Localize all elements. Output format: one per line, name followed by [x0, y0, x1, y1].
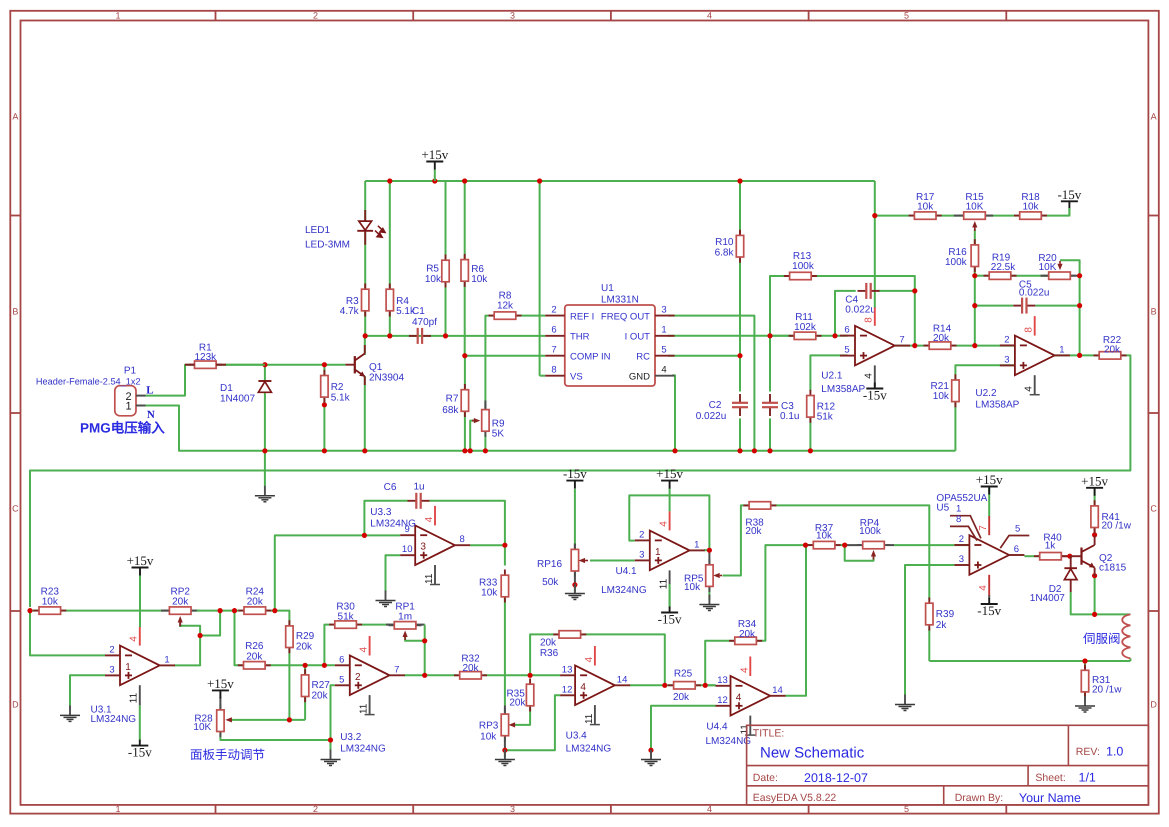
title block [747, 725, 1149, 805]
junction (324.4,364.7) [322, 362, 327, 367]
svg-text:L: L [146, 384, 153, 396]
resistor R23 [33, 610, 66, 612]
ground under RP5 [708, 595, 710, 605]
wire x=30 to U3.1 pin2 [30, 611, 105, 656]
svg-text:2018-12-07: 2018-12-07 [804, 771, 868, 785]
resistor R17 [909, 215, 942, 217]
svg-text:Q1: Q1 [369, 362, 383, 373]
junction (740,181) [737, 178, 742, 183]
svg-text:伺服阀: 伺服阀 [1083, 632, 1121, 646]
svg-text:LED1: LED1 [305, 225, 330, 236]
svg-text:LM331N: LM331N [601, 295, 639, 306]
svg-text:10k: 10k [481, 587, 498, 598]
power flag +15v R28 [212, 689, 229, 691]
resistor R5 [445, 255, 447, 288]
resistor R16 [974, 239, 976, 272]
pot lead gray R15 right [985, 215, 994, 217]
ground under U3.2 pin5 net [330, 750, 332, 760]
connector P1 [115, 386, 136, 416]
potentiometer R20 [1043, 275, 1076, 277]
svg-text:LM324NG: LM324NG [706, 736, 752, 747]
svg-text:1N4007: 1N4007 [1030, 593, 1065, 604]
wire U4.1 pin2 feedback loop [629, 495, 709, 550]
svg-text:102k: 102k [794, 322, 817, 333]
svg-text:U3.2: U3.2 [340, 732, 362, 743]
op-amp U3.2 [350, 656, 390, 696]
svg-text:U4.1: U4.1 [616, 566, 638, 577]
resistor R6 [464, 254, 466, 287]
svg-text:4: 4 [424, 516, 435, 522]
wire R9 wiper to gnd rail [470, 421, 475, 451]
svg-text:5: 5 [844, 345, 849, 356]
svg-text:COMP IN: COMP IN [570, 351, 611, 362]
U3.2 power pin 4 stub [369, 636, 371, 656]
svg-text:2: 2 [959, 534, 964, 545]
wire R31 top [1084, 661, 1086, 670]
svg-text:4: 4 [658, 521, 669, 527]
wire +15v top rail y=181 [365, 180, 875, 182]
potentiometer R15 [958, 215, 991, 217]
svg-text:2: 2 [551, 305, 556, 316]
wire U3.3 pin10 to gnd [386, 555, 401, 592]
junction (1094.6,534.9) [1092, 532, 1097, 537]
svg-text:3: 3 [420, 542, 426, 553]
wire RC line [668, 355, 740, 357]
svg-text:7: 7 [899, 335, 904, 346]
wire Q1 emitter to rail [364, 376, 366, 451]
resistor R26 [238, 664, 271, 666]
wire RP16 bottom to gnd [574, 570, 576, 585]
svg-text:-15v: -15v [863, 388, 887, 403]
svg-text:1k: 1k [1045, 541, 1057, 552]
resistor R2 [323, 370, 325, 403]
svg-text:10k: 10k [480, 732, 497, 743]
svg-text:5: 5 [904, 11, 909, 21]
junction (324.4,665.3) [322, 663, 327, 668]
wire RP2 right to R24 [191, 610, 244, 612]
junction (740,355.7) [737, 353, 742, 358]
wire D1 bottom [264, 393, 266, 451]
wire R34 right up to R37 line [757, 545, 806, 641]
svg-text:A: A [1151, 112, 1157, 122]
op-amp U3.1 [120, 646, 160, 686]
svg-text:3: 3 [959, 554, 964, 565]
svg-text:GND: GND [629, 371, 650, 382]
svg-text:10k: 10k [425, 274, 442, 285]
wire R7 bottom to gnd rail [464, 411, 466, 451]
svg-text:U1: U1 [601, 283, 614, 294]
power flag -15v right of R18 [1061, 200, 1078, 202]
wire U4.1 output to node [704, 549, 709, 551]
svg-text:U3.4: U3.4 [566, 731, 588, 742]
resistor R11 [789, 335, 822, 337]
U4.4 power pin 4 stub [749, 657, 751, 677]
wire RP1 right terminal down [424, 625, 426, 676]
junction (770,335.8) [767, 333, 772, 338]
svg-text:c1815: c1815 [1099, 563, 1127, 574]
wire R32 to pin13 node [483, 674, 530, 676]
U2.2 power pin 4 stub [1034, 375, 1036, 395]
wire output node down thru R33 [504, 545, 506, 565]
svg-text:123k: 123k [194, 352, 217, 363]
svg-text:2k: 2k [936, 620, 948, 631]
svg-text:-15v: -15v [128, 745, 152, 760]
wire R26 right to pin6 line [265, 664, 335, 666]
wire R1 line to Q1 base [216, 364, 345, 366]
resistor R40 [1034, 555, 1067, 557]
svg-text:3: 3 [510, 804, 515, 814]
svg-text:14: 14 [772, 685, 783, 696]
svg-text:20k: 20k [312, 690, 329, 701]
wire U2.2 output to R22 [1055, 354, 1100, 356]
resistor R38 [743, 504, 776, 506]
wire pin5 node down to gnd [330, 740, 332, 750]
svg-text:4: 4 [864, 373, 875, 379]
svg-text:3: 3 [1004, 354, 1009, 365]
wire RP4 wiper loop [845, 545, 874, 561]
resistor R22 [1094, 354, 1127, 356]
op-amp U3.3 [415, 525, 455, 565]
wire REF I pin2 stub [540, 315, 546, 317]
svg-text:2: 2 [313, 804, 318, 814]
wire R11 right to pin6 node [815, 335, 847, 337]
junction (424.7,640.8) [422, 638, 427, 643]
wire I OUT line [668, 335, 795, 337]
wire R2 bottom [323, 397, 325, 451]
junction (1069.8,556.2) [1067, 554, 1072, 559]
svg-text:3: 3 [639, 549, 644, 560]
svg-text:20k: 20k [933, 333, 950, 344]
wire C5 line [975, 305, 1014, 307]
op-amp U5 OPA552UA [969, 535, 1009, 575]
svg-text:5: 5 [1015, 524, 1020, 535]
svg-text:4: 4 [359, 647, 370, 653]
junction (530.1,675.3) [528, 673, 533, 678]
pot gray lead RP2 wiper shaft [179, 622, 181, 627]
svg-text:LED-3MM: LED-3MM [305, 240, 350, 251]
wire RP5 wiper to R38 [723, 505, 750, 575]
U5 power pin4 lead [988, 575, 990, 596]
junction (274.8,610.6) [272, 608, 277, 613]
U2.2 power pin 8 stub [1034, 316, 1036, 336]
wire RP1 wiper link [405, 633, 425, 641]
svg-text:6: 6 [339, 654, 344, 665]
ground under RP3 [504, 750, 506, 760]
wire R6 top [464, 181, 466, 259]
svg-text:10k: 10k [42, 597, 59, 608]
wire R10 branch x=740 [739, 181, 741, 235]
potentiometer R28 [219, 704, 221, 737]
wire R29 bottom to wiper line [288, 648, 290, 720]
svg-text:100k: 100k [945, 257, 968, 268]
resistor R32 [454, 674, 487, 676]
resistor R12 [809, 390, 811, 423]
resistor R19 [984, 275, 1017, 277]
wire R9 top to R8 left [485, 316, 494, 411]
svg-text:VS: VS [570, 371, 583, 382]
wire R20 node down thru C5 node to U2.2 out [1079, 276, 1081, 356]
junction (914.8,290.9) [912, 288, 917, 293]
junction (835,335.8) [832, 333, 837, 338]
svg-text:0.1u: 0.1u [780, 411, 799, 422]
svg-text:Drawn By:: Drawn By: [955, 792, 1003, 804]
wire U4.1 output node down RP5 [708, 550, 710, 566]
pot gray leads RP1 [386, 624, 395, 626]
svg-text:REV:: REV: [1076, 746, 1100, 758]
svg-text:面板手动调节: 面板手动调节 [190, 748, 265, 762]
svg-text:10k: 10k [471, 274, 488, 285]
wire U4.1 +15v to pin4 [669, 488, 671, 511]
junction (504.9,750.2) [502, 748, 507, 753]
svg-text:5: 5 [661, 345, 666, 356]
ground under U3.3 pin10 [385, 591, 387, 601]
U3.3 power pin 11 stub [434, 565, 436, 585]
svg-text:4: 4 [739, 667, 750, 673]
wire P1 N down to gnd rail [146, 406, 265, 451]
U3.3 power pin 4 stub [434, 506, 436, 526]
U2.1 power pin 8 stub to rail [874, 308, 876, 326]
svg-text:10k: 10k [816, 531, 833, 542]
svg-text:B: B [1151, 307, 1157, 317]
capacitor C3 [769, 394, 771, 403]
svg-text:10K: 10K [193, 722, 211, 733]
junction (389.8,181) [387, 178, 392, 183]
wire THR line (C1 net) [365, 335, 445, 337]
capacitor C6 [408, 500, 417, 502]
svg-text:REF I: REF I [570, 311, 594, 322]
resistor R31 [1084, 665, 1086, 698]
svg-text:1N4007: 1N4007 [220, 394, 255, 405]
potentiometer RP1 [389, 624, 422, 626]
svg-text:RC: RC [636, 351, 650, 362]
wire R6 bottom to COMP node [464, 282, 466, 356]
lead R1 [185, 364, 195, 366]
svg-text:1/1: 1/1 [1079, 771, 1096, 785]
svg-text:R36: R36 [540, 648, 559, 659]
pot gray lead RP16 top [574, 544, 576, 550]
junction (445.5,335.9) [443, 333, 448, 338]
svg-text:Sheet:: Sheet: [1035, 772, 1065, 784]
junction (264.9,450.8) [262, 448, 267, 453]
svg-text:11: 11 [658, 578, 669, 589]
wire U5 output to R40 [1024, 555, 1039, 557]
wire wiper node to main line link [200, 611, 220, 636]
wire U2.2 pin3 to R21 [955, 365, 1015, 380]
svg-text:4: 4 [661, 365, 666, 376]
svg-text:1u: 1u [413, 482, 424, 493]
svg-text:4: 4 [707, 11, 712, 21]
junction (200.1,635.5) [198, 633, 203, 638]
svg-text:2: 2 [1004, 334, 1009, 345]
svg-text:4: 4 [580, 682, 586, 693]
svg-text:20k: 20k [745, 526, 762, 537]
resistor R18 [1014, 215, 1047, 217]
svg-text:4.7k: 4.7k [340, 306, 360, 317]
potentiometer RP3 [504, 708, 506, 741]
wire pin13 node to U3.4 pin13 [530, 674, 560, 676]
power flag +15v U4.1 [661, 480, 678, 482]
svg-text:8: 8 [956, 514, 961, 525]
wire LED branch top [364, 181, 366, 221]
svg-text:R25: R25 [674, 669, 693, 680]
U5 pin1 pin8 stubs [950, 516, 981, 539]
junction (810.4,450.8) [808, 448, 813, 453]
wire R39 bottom to sense line [928, 629, 930, 662]
junction (974.8,305.6) [972, 303, 977, 308]
wire U1 GND pin down [672, 375, 675, 450]
junction (389.8,335.9) [387, 333, 392, 338]
wire U3.1 pin11 to -15v [139, 705, 141, 740]
svg-text:5: 5 [339, 674, 344, 685]
junction (805.5,545.1) [803, 543, 808, 548]
wire U3.3 pin9 line from x=274.8 [275, 535, 400, 610]
transistor Q2 [1080, 548, 1082, 565]
svg-text:20k: 20k [509, 698, 526, 709]
U3.1 power pin 11 lead [139, 685, 141, 705]
U3.1 power pin 4 lead [139, 627, 141, 646]
ground under U3.1 pin3 [69, 705, 71, 715]
wire U3.2 output to dot [404, 674, 425, 676]
power flag -15v U4.1 [661, 612, 678, 614]
svg-text:20k: 20k [1104, 345, 1121, 356]
svg-text:-15v: -15v [563, 466, 587, 481]
junction (424.7,675.3) [422, 673, 427, 678]
svg-text:6: 6 [551, 325, 556, 336]
wire rail to U2.1 power / R17 branch x=874.8 [874, 181, 876, 308]
wire R23 left lead [30, 610, 39, 612]
svg-text:20k: 20k [247, 597, 264, 608]
resistor R21 [954, 374, 956, 407]
svg-text:20k: 20k [172, 597, 189, 608]
wire R38 right to R39 column [771, 505, 930, 599]
svg-text:470pf: 470pf [412, 317, 437, 328]
resistor R30 [329, 624, 362, 626]
wire R17-R15 [936, 215, 964, 217]
wire U5 pin2 line [954, 544, 969, 546]
junction (709.4,550.2) [707, 548, 712, 553]
svg-text:1: 1 [694, 539, 699, 550]
svg-text:5.1k: 5.1k [331, 393, 351, 404]
svg-text:+15v: +15v [1081, 473, 1108, 488]
resistor R36 (value above name) [553, 633, 586, 635]
resistor R3 [364, 284, 366, 317]
svg-text:2: 2 [355, 672, 361, 683]
wire U5 pin3 to gnd [905, 565, 954, 695]
svg-text:20 /1w: 20 /1w [1102, 521, 1132, 532]
wire C6 left branch [364, 501, 407, 536]
svg-text:1: 1 [115, 11, 120, 21]
junction (464.7,181) [462, 178, 467, 183]
wire R12 bottom [809, 417, 811, 451]
resistor R29 [288, 620, 290, 653]
wire Q1 collector [364, 336, 366, 355]
junction (664.8,685.3) [662, 683, 667, 688]
svg-text:2: 2 [313, 11, 318, 21]
svg-text:3: 3 [661, 305, 666, 316]
wire U4.4 pin12 to gnd [651, 706, 716, 750]
wire coil bottom corner [1129, 658, 1131, 661]
svg-text:14: 14 [617, 674, 628, 685]
wire R15 wiper down to R16 [974, 229, 976, 245]
svg-text:Your Name: Your Name [1019, 791, 1081, 805]
wire R5 bottom to C1 node [445, 282, 447, 336]
wire R19 line [975, 275, 989, 277]
junction (485.4,450.8) [483, 448, 488, 453]
wire R22 right down long rail [30, 355, 1130, 607]
op-amp U3.4 [575, 666, 615, 706]
wire RC node to C2 [739, 356, 741, 392]
wire U3.3 output [470, 544, 505, 546]
wire P1 L to R1 [146, 365, 195, 396]
junction (234.5,610.6) [232, 608, 237, 613]
svg-text:11: 11 [584, 713, 595, 724]
wire gnd rail y=450.8 [265, 450, 956, 452]
junction (1094.6,614.4) [1092, 612, 1097, 617]
resistor R33 [504, 570, 506, 603]
junction (289.4,719.9) [287, 717, 292, 722]
wire C2 bottom [739, 418, 741, 450]
wire RP4 right to U5 pin2 [894, 544, 954, 546]
svg-text:2N3904: 2N3904 [369, 373, 404, 384]
svg-text:50k: 50k [542, 577, 559, 588]
svg-text:-15v: -15v [1057, 187, 1081, 202]
ground under RP16 [574, 584, 576, 594]
wire R14 right to U2.2 pin2 [951, 345, 1015, 347]
wire R28 bottom to pin5 path [220, 730, 330, 740]
wire R19 node down to C5 line [974, 276, 976, 306]
P1 pin leads [136, 395, 146, 397]
svg-text:12k: 12k [497, 301, 514, 312]
svg-text:LM324NG: LM324NG [566, 744, 612, 755]
svg-text:4: 4 [129, 636, 140, 642]
junction (305.1,665.3) [303, 663, 308, 668]
wire R3 bottom to THR node [364, 311, 366, 336]
wire U3.1 pin3 to gnd [70, 675, 105, 705]
svg-text:U2.1: U2.1 [821, 371, 843, 382]
resistor R41 [1094, 500, 1096, 533]
wire R15-R18 [985, 215, 1020, 217]
resistor R35 [529, 679, 531, 712]
wire RP3 bottom to gnd dot [504, 735, 506, 750]
junction (651,750.2) [648, 748, 653, 753]
pot gray lead R20 left/right [1041, 275, 1049, 277]
svg-text:11: 11 [424, 573, 435, 584]
wire FREQ OUT to gnd rail [668, 316, 754, 451]
U4.4 power pin 11 stub [749, 716, 751, 736]
junction (1094.6,575.7) [1092, 573, 1097, 578]
svg-text:1: 1 [956, 503, 961, 514]
svg-text:4: 4 [707, 804, 712, 814]
U3.2 power pin 11 stub [369, 695, 371, 715]
svg-text:1: 1 [115, 804, 120, 814]
wire U3.4 pin12 path [505, 695, 560, 750]
diode D1 [258, 380, 271, 382]
junction (914.8,345.6) [912, 343, 917, 348]
svg-text:11: 11 [359, 703, 370, 714]
resistor R24 [238, 610, 271, 612]
power flag +15v R41 [1086, 487, 1103, 489]
wire R30 tap to pin6 node [324, 625, 334, 666]
svg-text:+15v: +15v [207, 676, 234, 691]
svg-text:10K: 10K [1039, 262, 1057, 273]
svg-text:LM358AP: LM358AP [821, 384, 865, 395]
wire RP5 bottom to gnd [708, 585, 710, 600]
wire pin6 node up to C4 [835, 291, 856, 336]
wire U5 pin4 to -15v [988, 595, 990, 599]
svg-text:0.022u: 0.022u [696, 411, 727, 422]
svg-text:C: C [12, 504, 19, 514]
svg-text:EasyEDA V5.8.22: EasyEDA V5.8.22 [753, 792, 837, 804]
